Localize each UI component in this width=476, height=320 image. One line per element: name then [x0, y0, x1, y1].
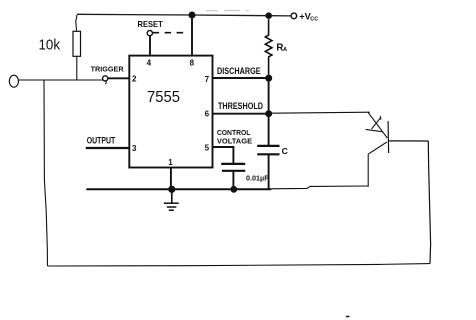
svg-text:THRESHOLD: THRESHOLD: [218, 101, 263, 112]
label Ra: [276, 42, 288, 53]
svg-text:TRIGGER: TRIGGER: [91, 64, 124, 73]
pin 1 lead: [170, 168, 172, 190]
label 7555: [147, 89, 180, 106]
pin 7 number: [205, 75, 210, 84]
transistor Q1 collector wire: [389, 140, 429, 142]
wire bottom horizontal: [48, 264, 431, 266]
wire right vertical: [428, 141, 430, 264]
label TRIGGER: [91, 64, 124, 73]
pin 2 number: [132, 75, 137, 84]
label DISCHARGE: [217, 66, 261, 77]
svg-text:C: C: [282, 146, 288, 156]
svg-text:VOLTAGE: VOLTAGE: [217, 136, 252, 145]
svg-text:OUTPUT: OUTPUT: [87, 136, 116, 146]
svg-text:4: 4: [147, 59, 152, 68]
ground rail: [86, 188, 271, 190]
svg-text:2: 2: [132, 75, 137, 84]
wire left vertical branch: [44, 80, 48, 266]
label CONTROL VOLTAGE: [217, 128, 252, 146]
junction Ra to rail: [265, 12, 272, 19]
svg-text:10k: 10k: [39, 37, 61, 54]
pin 8 lead: [191, 15, 193, 56]
stray mark: [346, 316, 350, 318]
pin 3 wire: [86, 147, 130, 149]
wire ground rail thin extension: [271, 186, 369, 189]
label OUTPUT: [87, 136, 116, 146]
reset dashed wire: [153, 32, 185, 34]
resistor Ra: [265, 19, 272, 75]
label RESET: [138, 19, 163, 29]
IC U1 7555 box: [129, 56, 212, 168]
svg-text:7: 7: [205, 75, 210, 84]
pin 8 number: [190, 59, 195, 68]
junction pin8 to rail: [189, 12, 196, 19]
reset pin circle: [147, 30, 152, 35]
label +Vcc: [299, 12, 318, 23]
pin 6 number: [205, 110, 210, 119]
svg-text:RESET: RESET: [138, 19, 163, 29]
transistor Q1 emitter diagonal: [368, 142, 387, 154]
erased dashes artifact: [206, 10, 249, 12]
label THRESHOLD: [218, 101, 263, 112]
svg-text:CC: CC: [310, 17, 318, 23]
svg-text:5: 5: [205, 144, 210, 153]
terminal +Vcc: [291, 13, 297, 19]
label C: [282, 146, 288, 156]
Vcc rail wire: [77, 14, 291, 16]
pin 5 wire: [213, 147, 234, 164]
trigger pin circle: [103, 76, 108, 84]
junction threshold: [265, 110, 272, 117]
junction cap 0.01 to ground rail: [230, 186, 237, 193]
pin 2 wire: [108, 77, 129, 79]
pin 4 number: [147, 59, 152, 68]
transistor Q1 base diagonal with arrow: [366, 113, 388, 138]
wire threshold to cap C: [268, 114, 270, 146]
svg-text:8: 8: [190, 59, 195, 68]
wire discharge to threshold: [268, 78, 270, 114]
wire threshold to transistor base: [272, 112, 370, 113]
svg-text:DISCHARGE: DISCHARGE: [217, 66, 261, 77]
capacitor C: [257, 146, 279, 189]
svg-text:3: 3: [132, 144, 137, 153]
label 10k: [39, 37, 61, 54]
svg-text:1: 1: [168, 158, 173, 167]
resistor R 10k: [73, 15, 81, 80]
ground symbol: [164, 189, 179, 210]
junction discharge: [265, 75, 272, 82]
pin 4 lead: [149, 36, 151, 56]
capacitor 0.01uF: [221, 164, 245, 189]
transistor Q1 bar: [387, 121, 390, 153]
wire input to trigger circle: [19, 79, 104, 81]
svg-text:6: 6: [205, 110, 210, 119]
pin 5 number: [205, 144, 210, 153]
svg-text:0.01µF: 0.01µF: [246, 174, 269, 183]
input terminal: [9, 75, 18, 87]
transistor Q1 emitter vertical: [367, 154, 369, 187]
label 0.01uF: [246, 174, 269, 183]
pin 7 wire: [213, 77, 269, 79]
svg-text:7555: 7555: [147, 89, 180, 106]
pin 1 number: [168, 158, 173, 167]
pin 3 number: [132, 144, 137, 153]
pin 6 wire: [213, 113, 269, 115]
junction pin1 ground: [168, 186, 175, 193]
